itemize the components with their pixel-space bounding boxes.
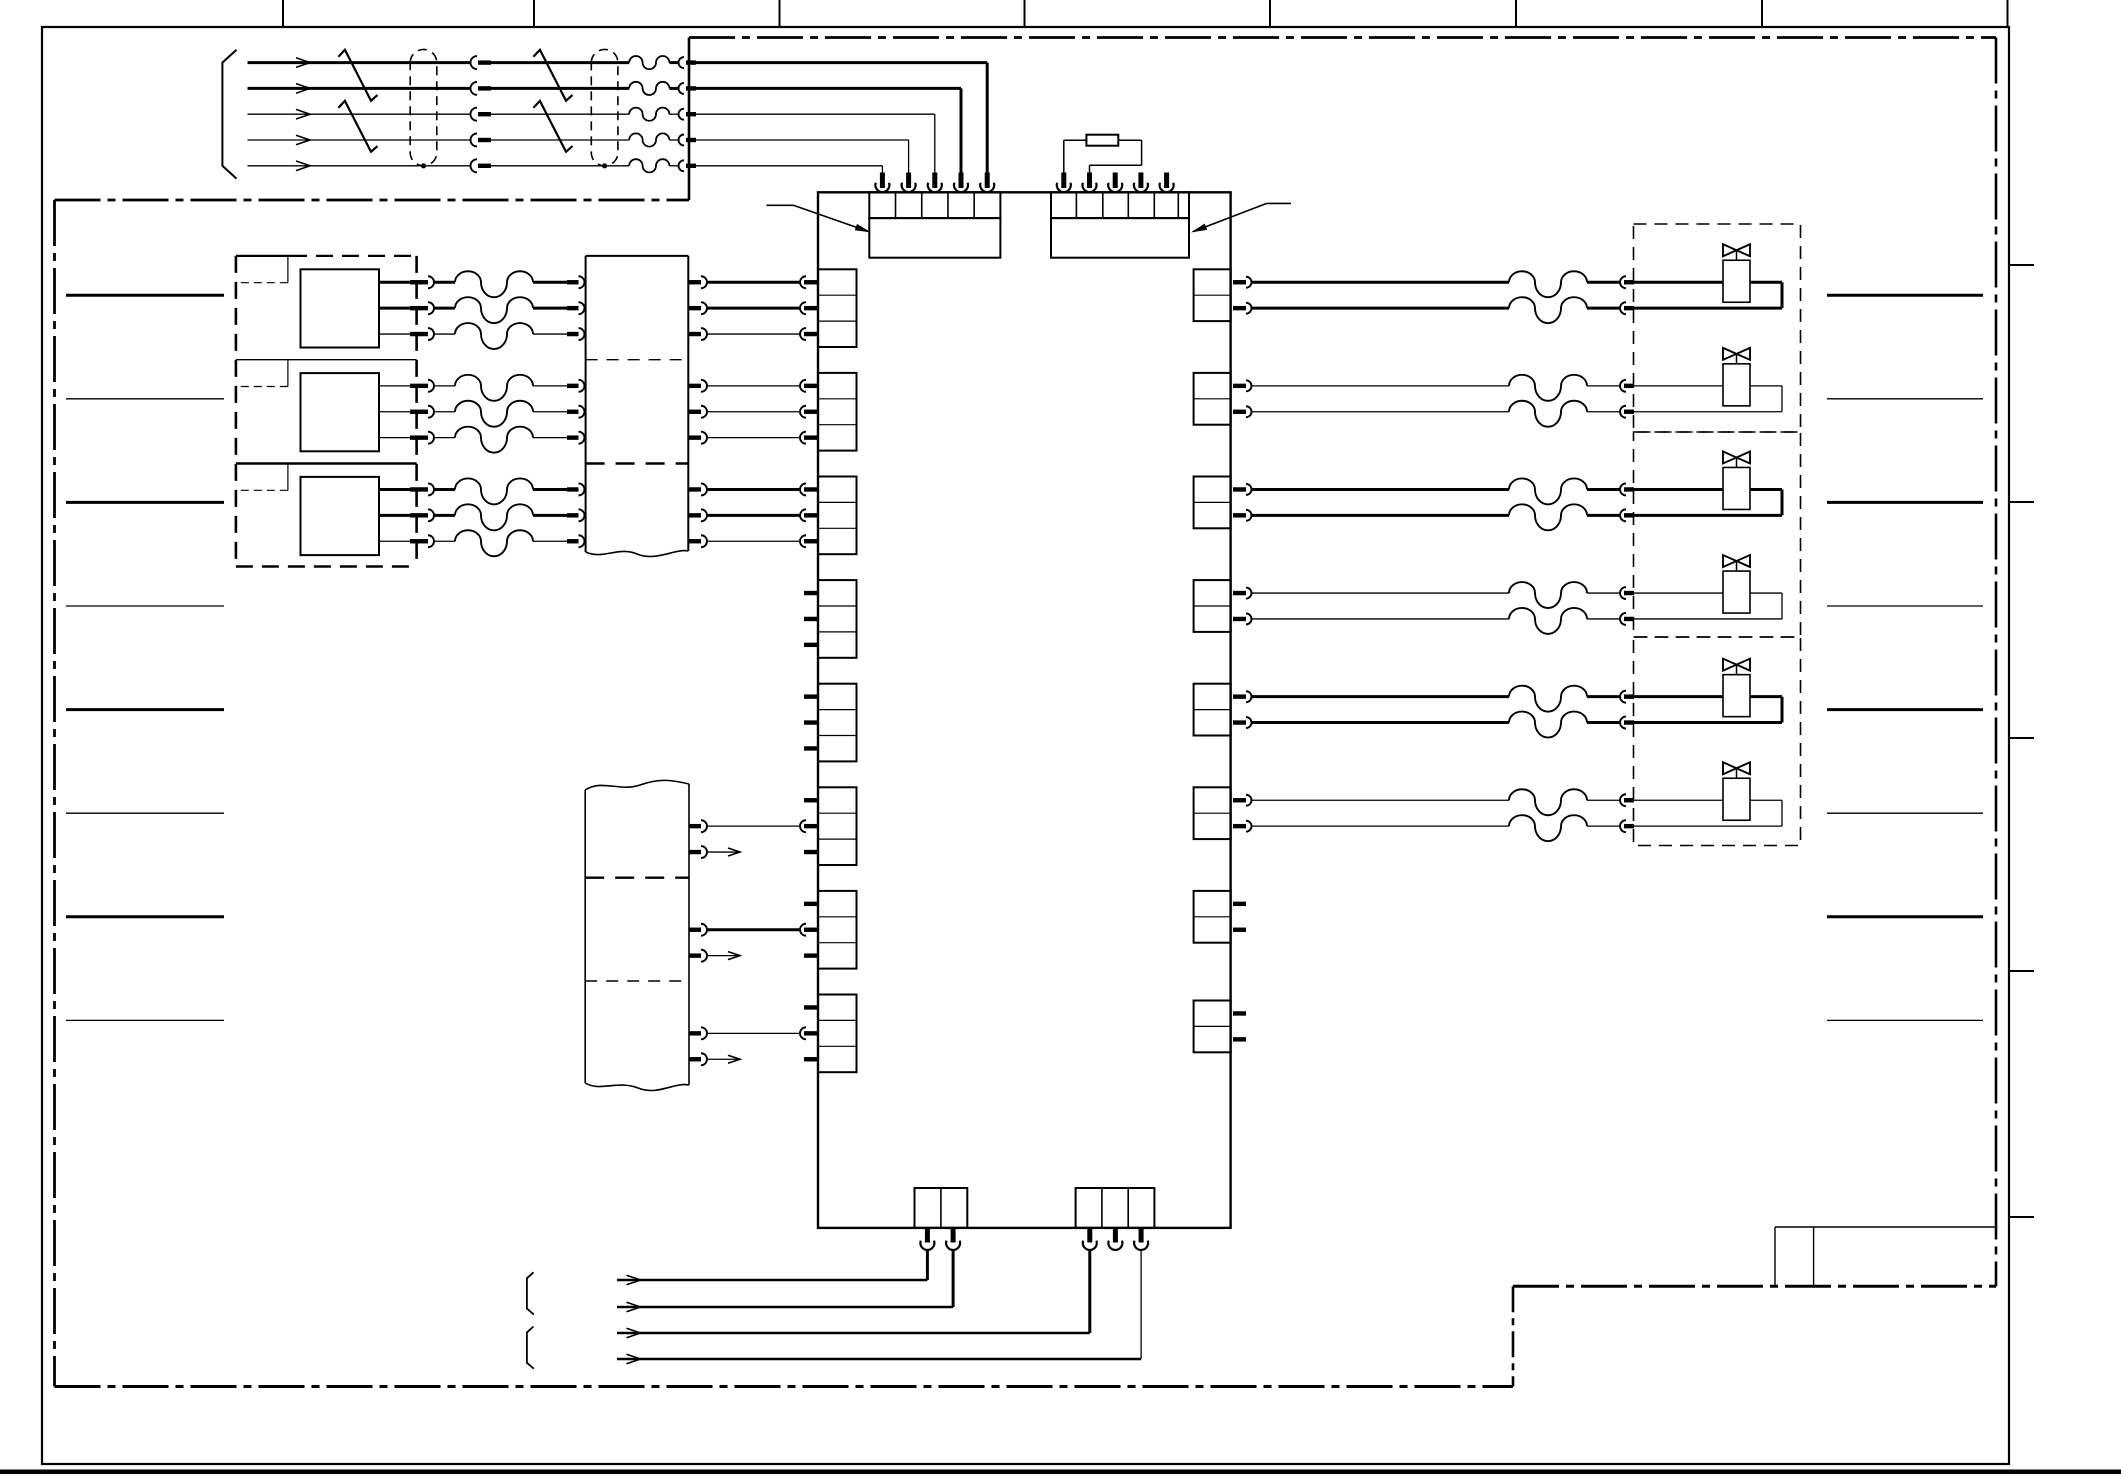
G8 stub pin row 3 [804, 1057, 818, 1061]
sensor group dashed enclosure [236, 256, 417, 567]
R2 upper wire with connectors and flexible lead [1233, 375, 1723, 401]
actuator group dashed box 1 [1634, 224, 1801, 432]
right net label line 1 [1827, 294, 1983, 297]
wire row 8 to terminal strip X1 [533, 509, 584, 521]
G1 connector row 3 [800, 328, 818, 340]
left net label line 1 [66, 294, 224, 297]
flexible lead row 3 [455, 323, 533, 349]
terminal pin B2 [1083, 173, 1097, 193]
sensor device B1 [301, 269, 380, 347]
G7 connector row 2 [800, 924, 818, 936]
G4 stub pin row 2 [804, 617, 818, 621]
left net label line 2 [66, 398, 224, 400]
strip X1 output connector row 9 [688, 535, 800, 547]
R8 stub pins [1233, 1011, 1246, 1041]
valve actuator Y4 [1723, 555, 1750, 613]
inline connector pair on feeder wire L4 [471, 134, 630, 147]
compartment 3 inner corner mark [241, 464, 288, 491]
wire row 2 to terminal strip X1 [533, 302, 585, 314]
right net label line 2 [1827, 398, 1983, 400]
R3 lower wire with connectors and flexible lead [1233, 489, 1782, 530]
terminal block B cells [1051, 192, 1189, 218]
wire row 1 to terminal strip X1 [533, 276, 585, 288]
bottom cable 1 riser and run [617, 1249, 927, 1284]
feeder wire L1 left segment with arrow [248, 58, 471, 68]
auxiliary terminal cell on boundary [1775, 1227, 1814, 1286]
terminal pin B1 [1057, 173, 1071, 193]
flexible lead row 9 [455, 530, 533, 556]
controller right terminal group R8 [1194, 1001, 1231, 1053]
inline connector pair on feeder wire L1 [471, 56, 630, 69]
strip X2 continuing-wire arrow at y=852.05 [689, 846, 740, 858]
bottom cable 5 riser and run [617, 1249, 1141, 1363]
terminal block B body [1051, 218, 1189, 258]
terminal pin A1 [875, 173, 889, 193]
G2 connector row 3 [800, 432, 818, 444]
flexible lead row 8 [455, 504, 533, 530]
wire row 5 to terminal strip X1 [533, 406, 585, 418]
R2 lower wire with connectors and flexible lead [1233, 386, 1782, 427]
bottom terminal pin 3 [1083, 1229, 1097, 1250]
strip X2 wire row to controller at y=929.75 [689, 924, 800, 936]
enclosure boundary dash-dot right vertical [1995, 38, 1998, 1287]
right net label line 4 [1827, 605, 1983, 607]
sheet bottom edge strip [0, 1470, 2121, 1475]
resistor R1 wiring [1064, 140, 1142, 174]
shield oval E2 [591, 49, 618, 168]
controller right terminal group R1 [1194, 269, 1231, 321]
bottom terminal block C [915, 1188, 968, 1228]
feeder wire L5 left segment with arrow [248, 161, 471, 171]
terminal pin A4 [954, 173, 968, 193]
G6 stub pin row 3 [804, 850, 818, 854]
feeder wire L4 left segment with arrow [248, 135, 471, 145]
wire row 9 to terminal strip X1 [533, 535, 585, 547]
controller left terminal group G5 [818, 684, 857, 762]
controller left terminal group G8 [818, 995, 857, 1073]
terminal strip X1 [586, 256, 689, 557]
sensor device B2 [301, 373, 380, 451]
flexible lead row 6 [455, 427, 533, 453]
strip X1 output connector row 7 [688, 483, 800, 495]
sensor wire row 1: device to enclosure connector [379, 276, 455, 288]
enclosure boundary dash-dot bottom horizontal [55, 1385, 1514, 1388]
bottom terminal block D [1076, 1188, 1155, 1228]
G2 connector row 2 [800, 406, 818, 418]
resistor R1 [1086, 135, 1118, 146]
auxiliary boundary line [1775, 1226, 1996, 1228]
G8 stub pin row 1 [804, 1005, 818, 1009]
boundary connector on feeder wire L3 [669, 109, 934, 174]
coiled lead on feeder wire L4 [629, 133, 669, 146]
G5 stub pin row 3 [804, 746, 818, 750]
feeder wire L3 left segment with arrow [248, 109, 471, 119]
sensor device B3 [301, 477, 380, 555]
disconnect slash S1 (wires L1-L2) [338, 50, 377, 101]
G3 connector row 1 [800, 483, 818, 495]
left net label line 5 [66, 708, 224, 711]
strip X2 continuing-wire arrow at y=955.65 [689, 950, 740, 962]
inline connector pair on feeder wire L3 [471, 108, 630, 121]
feeder wire L2 left segment with arrow [248, 84, 471, 94]
boundary connector on feeder wire L5 [669, 160, 882, 173]
R1 upper wire with connectors and flexible lead [1233, 271, 1723, 297]
R7 stub pins [1233, 902, 1246, 932]
disconnect slash S3 (wires L1-L2) [533, 50, 572, 101]
enclosure boundary dash-dot upper-left horizontal [55, 199, 690, 202]
sensor wire row 9: device to enclosure connector [379, 535, 455, 547]
G1 connector row 2 [800, 302, 818, 314]
controller right terminal group R6 [1194, 787, 1231, 839]
strip X1 output connector row 5 [688, 406, 800, 418]
left net label line 8 [66, 1019, 224, 1021]
G6 stub pin row 1 [804, 798, 818, 802]
sensor wire row 2: device to enclosure connector [379, 302, 455, 314]
R6 upper wire with connectors and flexible lead [1233, 789, 1723, 815]
terminal pin A5 [980, 173, 994, 193]
terminal pin B3 [1108, 173, 1122, 193]
wire row 3 to terminal strip X1 [533, 328, 585, 340]
left net label line 3 [66, 501, 224, 504]
enclosure boundary solid left drop at x=689 [688, 38, 691, 201]
wire row 6 to terminal strip X1 [533, 432, 585, 444]
strip X2 continuing-wire arrow at y=1059.25 [689, 1053, 740, 1065]
top zone tick marks [283, 0, 2008, 27]
coiled lead on feeder wire L3 [629, 108, 669, 121]
controller right terminal group R7 [1194, 891, 1231, 943]
sensor wire row 7: device to enclosure connector [379, 483, 455, 495]
valve actuator Y5 [1723, 659, 1750, 717]
compartment divider 2 [236, 462, 417, 464]
wire row 4 to terminal strip X1 [533, 380, 585, 392]
terminal pin A2 [902, 173, 916, 193]
controller left terminal group G3 [818, 477, 857, 555]
G3 connector row 2 [800, 509, 818, 521]
strip X1 dashed divider 2 [586, 462, 689, 464]
boundary connector on feeder wire L4 [669, 135, 908, 174]
boundary connector on feeder wire L2 [669, 83, 961, 174]
strip X1 output connector row 1 [688, 276, 800, 288]
strip X1 output connector row 2 [688, 302, 800, 314]
strip X1 output connector row 4 [688, 380, 800, 392]
cable group brace 2 [527, 1327, 534, 1369]
G5 stub pin row 2 [804, 720, 818, 724]
wire row 7 to terminal strip X1 [533, 483, 585, 495]
compartment 2 inner corner mark [241, 360, 288, 387]
controller left terminal group G6 [818, 787, 857, 865]
inline connector pair on feeder wire L5 [471, 159, 630, 172]
strip X1 output connector row 8 [688, 509, 800, 521]
G6 connector row 2 [800, 820, 818, 832]
actuator group dashed box 3 [1634, 637, 1801, 846]
bottom cable 2 riser and run [617, 1249, 953, 1311]
G5 stub pin row 1 [804, 694, 818, 698]
coiled lead on feeder wire L1 [629, 56, 669, 69]
leader line to terminal block A [767, 205, 872, 232]
right net label line 6 [1827, 812, 1983, 814]
controller left terminal group G1 [818, 269, 857, 347]
terminal block A body [869, 218, 1000, 258]
valve actuator Y3 [1723, 451, 1750, 509]
sensor wire row 6: device to enclosure connector [379, 432, 455, 444]
R4 lower wire with connectors and flexible lead [1233, 593, 1782, 634]
bottom cable 3 riser and run [617, 1249, 1090, 1337]
terminal pin B4 [1134, 173, 1148, 193]
leader line to terminal block B [1191, 203, 1291, 232]
strip X2 wire row to controller at y=1033.35 [689, 1027, 800, 1039]
R1 lower wire with connectors and flexible lead [1233, 282, 1782, 323]
compartment divider 1 [236, 359, 417, 361]
flexible lead row 1 [455, 271, 533, 297]
terminal pin B5 [1160, 173, 1174, 193]
bottom terminal pin 2 [946, 1229, 960, 1250]
sensor wire row 4: device to enclosure connector [379, 380, 455, 392]
bottom terminal pin 4 [1108, 1229, 1122, 1250]
sensor wire row 3: device to enclosure connector [379, 328, 455, 340]
right net label line 8 [1827, 1019, 1983, 1021]
right net label line 3 [1827, 501, 1983, 504]
inline connector pair on feeder wire L2 [471, 82, 630, 95]
strip X2 dashed divider 2 [585, 980, 689, 982]
left net label line 6 [66, 812, 224, 814]
disconnect slash S2 (wires L3-L4) [338, 101, 377, 152]
R5 upper wire with connectors and flexible lead [1233, 686, 1723, 712]
G8 connector row 2 [800, 1027, 818, 1039]
G2 connector row 1 [800, 380, 818, 392]
valve actuator Y1 [1723, 244, 1750, 302]
boundary connector on feeder wire L1 [669, 57, 987, 173]
strip X2 dashed divider 1 [585, 877, 689, 879]
compartment 1 inner corner mark [241, 256, 288, 283]
left net label line 7 [66, 915, 224, 918]
strip X1 output connector row 6 [688, 432, 800, 444]
right border zone ticks [2009, 265, 2034, 1217]
coiled lead on feeder wire L2 [629, 82, 669, 95]
G4 stub pin row 3 [804, 643, 818, 647]
strip X1 output connector row 3 [688, 328, 800, 340]
controller main enclosure box [818, 192, 1231, 1228]
shield oval E1 [410, 49, 437, 168]
right net label line 5 [1827, 708, 1983, 711]
R4 upper wire with connectors and flexible lead [1233, 582, 1723, 608]
terminal strip X2 (broken view) [585, 780, 689, 1090]
controller left terminal group G2 [818, 373, 857, 451]
G7 stub pin row 1 [804, 902, 818, 906]
valve actuator Y2 [1723, 348, 1750, 406]
G7 stub pin row 3 [804, 953, 818, 957]
G1 connector row 1 [800, 276, 818, 288]
enclosure boundary dash-dot step vertical [1512, 1286, 1515, 1386]
right net label line 7 [1827, 915, 1983, 918]
R6 lower wire with connectors and flexible lead [1233, 800, 1782, 841]
sensor wire row 5: device to enclosure connector [379, 406, 455, 418]
controller left terminal group G7 [818, 891, 857, 969]
strip X1 dashed divider 1 [586, 359, 689, 361]
incoming cable group bracket [222, 50, 236, 179]
enclosure boundary dash-dot lower-right horizontal [1513, 1285, 1996, 1288]
controller right terminal group R4 [1194, 580, 1231, 632]
disconnect slash S4 (wires L3-L4) [533, 101, 572, 152]
flexible lead row 7 [455, 478, 533, 504]
actuator group dashed box 2 [1634, 432, 1801, 637]
flexible lead row 4 [455, 375, 533, 401]
terminal pin A3 [928, 173, 942, 193]
flexible lead row 5 [455, 401, 533, 427]
coiled lead on feeder wire L5 [629, 159, 669, 172]
terminal block A cells [869, 192, 1000, 218]
R3 upper wire with connectors and flexible lead [1233, 478, 1723, 504]
R5 lower wire with connectors and flexible lead [1233, 697, 1782, 738]
strip X2 wire row to controller at y=826.15 [689, 820, 800, 832]
controller right terminal group R2 [1194, 373, 1231, 425]
cable group brace 1 [527, 1272, 534, 1314]
enclosure boundary dash-dot top [689, 36, 1996, 39]
flexible lead row 2 [455, 297, 533, 323]
G4 stub pin row 1 [804, 591, 818, 595]
enclosure boundary dash-dot left vertical [53, 200, 56, 1387]
bottom terminal pin 5 [1134, 1229, 1148, 1250]
left net label line 4 [66, 605, 224, 607]
controller right terminal group R3 [1194, 477, 1231, 529]
G3 connector row 3 [800, 535, 818, 547]
sensor wire row 8: device to enclosure connector [379, 509, 455, 521]
bottom terminal pin 1 [920, 1229, 934, 1250]
valve actuator Y6 [1723, 762, 1750, 820]
controller left terminal group G4 [818, 580, 857, 658]
controller right terminal group R5 [1194, 684, 1231, 736]
